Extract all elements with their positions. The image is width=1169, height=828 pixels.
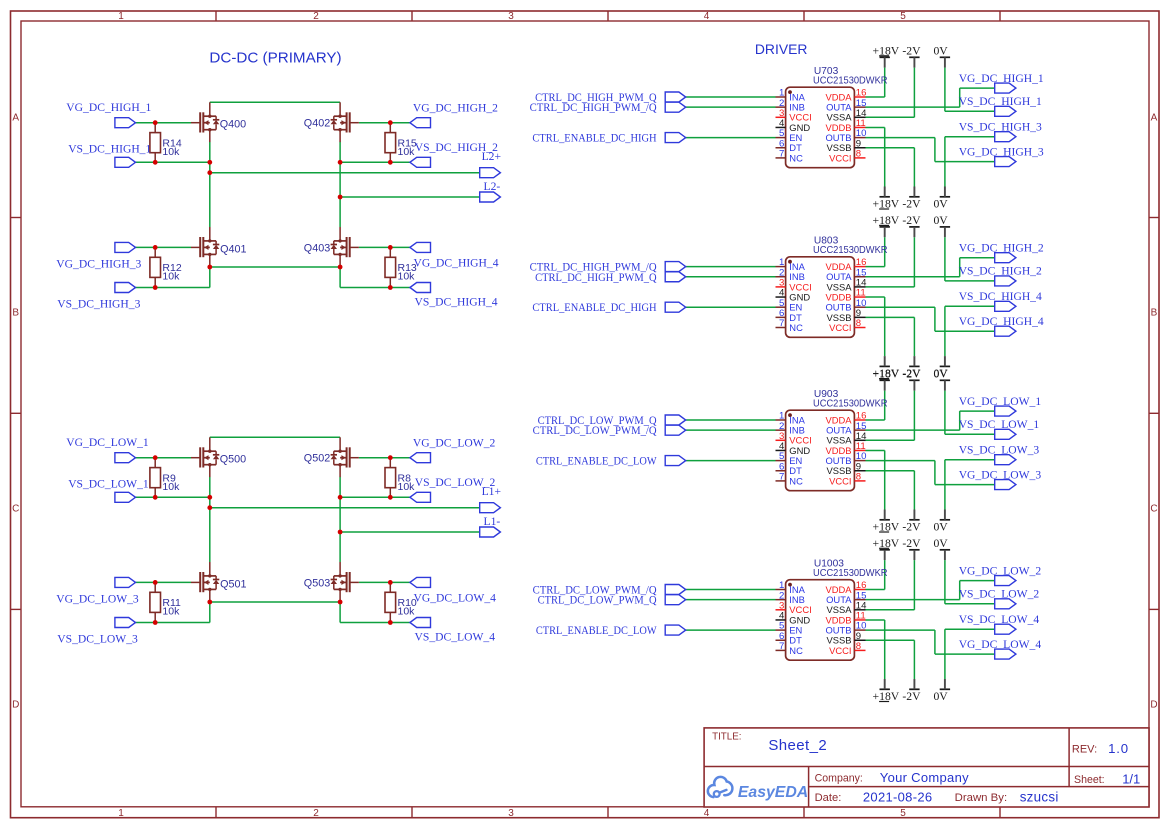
power flag -2V [902, 45, 921, 68]
pin 1 INA [776, 580, 806, 595]
wire [686, 429, 776, 431]
net flag CTRL_DC_LOW_PWM_Q [665, 595, 686, 605]
svg-text:VG_DC_HIGH_4: VG_DC_HIGH_4 [414, 256, 499, 269]
svg-text:2021-08-26: 2021-08-26 [863, 789, 933, 804]
pin 7 NC [776, 318, 804, 333]
net flag VS_DC_HIGH_1 [115, 157, 136, 167]
net flag CTRL_DC_LOW_PWM_Q [665, 415, 686, 425]
svg-text:UCC21530DWKR: UCC21530DWKR [813, 75, 888, 86]
net flag VG_DC_HIGH_4 [410, 242, 431, 252]
resistor R13 [385, 247, 417, 287]
pin 1 INA [776, 257, 806, 272]
wire [866, 96, 885, 98]
svg-text:0V: 0V [933, 45, 948, 58]
junction [338, 265, 343, 270]
junction [388, 580, 393, 585]
net flag VS_DC_LOW_4 [995, 624, 1016, 634]
net flag CTRL_ENABLE_DC_LOW [665, 456, 686, 466]
net flag CTRL_DC_LOW_PWM_/Q [665, 585, 686, 595]
power flag -2V [902, 214, 921, 237]
svg-text:1/1: 1/1 [1122, 771, 1140, 786]
wire [866, 439, 915, 441]
wire [866, 137, 935, 139]
wire [686, 266, 776, 268]
pin 4 GND [776, 288, 811, 303]
svg-text:8: 8 [856, 472, 861, 483]
net flag VG_DC_LOW_1 [995, 406, 1016, 416]
wire [209, 477, 211, 562]
junction [153, 245, 158, 250]
transistor Q503 [331, 562, 359, 602]
wire [866, 419, 885, 421]
junction [207, 170, 212, 175]
net flag VG_DC_LOW_4 [410, 577, 431, 587]
pin 9 VSSB [826, 631, 865, 646]
svg-text:VG_DC_LOW_3: VG_DC_LOW_3 [959, 468, 1042, 481]
svg-text:VS_DC_HIGH_4: VS_DC_HIGH_4 [415, 295, 498, 308]
svg-text:VS_DC_HIGH_2: VS_DC_HIGH_2 [959, 265, 1042, 278]
net flag VS_DC_LOW_1 [115, 492, 136, 502]
wire [210, 172, 480, 174]
op-amp U1003 UCC21530DWKR gate driver IC [786, 559, 888, 661]
transistor Q402 [331, 102, 359, 142]
pin 16 VDDA [825, 88, 866, 103]
wire [359, 246, 410, 248]
wire [866, 429, 960, 431]
wire [135, 622, 210, 624]
pin 5 EN [776, 621, 803, 636]
junction [153, 455, 158, 460]
svg-text:A: A [1151, 113, 1158, 124]
op-amp U803 UCC21530DWKR gate driver IC [786, 236, 888, 338]
svg-text:CTRL_ENABLE_DC_LOW: CTRL_ENABLE_DC_LOW [536, 624, 657, 637]
wire [210, 266, 340, 268]
junction [153, 620, 158, 625]
wire [209, 265, 211, 288]
svg-text:Your Company: Your Company [880, 770, 969, 785]
svg-text:Q503: Q503 [304, 578, 330, 590]
wire [359, 581, 410, 583]
junction [338, 600, 343, 605]
svg-text:VG_DC_LOW_1: VG_DC_LOW_1 [959, 395, 1042, 408]
net flag VS_DC_HIGH_3 [115, 283, 136, 293]
pin 1 INA [776, 411, 806, 426]
wire [209, 142, 211, 227]
pin 10 OUTB [825, 621, 866, 636]
wire [210, 601, 340, 603]
wire [866, 266, 885, 268]
power flag -2V [902, 510, 921, 534]
wire [339, 477, 341, 562]
svg-text:-2V: -2V [902, 537, 921, 550]
wire [686, 96, 776, 98]
wire [340, 496, 410, 498]
resistor R11 [150, 582, 181, 622]
net flag VS_DC_LOW_2 [410, 492, 431, 502]
power flag -2V [902, 679, 921, 703]
wire [210, 101, 340, 103]
wire [866, 629, 935, 631]
svg-text:1: 1 [118, 11, 124, 22]
svg-text:VS_DC_LOW_1: VS_DC_LOW_1 [959, 418, 1040, 431]
power flag 0V [933, 45, 950, 68]
svg-text:UCC21530DWKR: UCC21530DWKR [813, 245, 888, 256]
pin 7 NC [776, 641, 804, 656]
svg-text:VG_DC_LOW_2: VG_DC_LOW_2 [959, 564, 1042, 577]
junction [388, 245, 393, 250]
pin 11 VDDB [825, 118, 865, 133]
pin 11 VDDB [825, 611, 865, 626]
wire [945, 305, 995, 307]
junction [388, 455, 393, 460]
svg-text:EasyEDA: EasyEDA [738, 784, 808, 801]
svg-text:NC: NC [789, 475, 803, 486]
svg-text:CTRL_DC_LOW_PWM_/Q: CTRL_DC_LOW_PWM_/Q [533, 424, 658, 437]
svg-text:VG_DC_HIGH_1: VG_DC_HIGH_1 [66, 101, 151, 114]
net flag VS_DC_HIGH_4 [410, 283, 431, 293]
svg-text:VG_DC_LOW_4: VG_DC_LOW_4 [959, 638, 1042, 651]
svg-text:4: 4 [704, 11, 710, 22]
svg-text:1.0: 1.0 [1108, 741, 1129, 756]
svg-text:10k: 10k [398, 271, 416, 283]
svg-text:3: 3 [508, 808, 514, 819]
svg-text:NC: NC [789, 322, 803, 333]
svg-text:-2V: -2V [902, 368, 921, 381]
net flag CTRL_DC_HIGH_PWM_/Q [665, 262, 686, 272]
power flag 0V [933, 356, 950, 380]
svg-text:10k: 10k [398, 606, 416, 618]
svg-text:VG_DC_HIGH_2: VG_DC_HIGH_2 [413, 102, 498, 115]
wire [866, 116, 915, 118]
net flag VG_DC_LOW_2 [410, 453, 431, 463]
svg-text:VG_DC_HIGH_4: VG_DC_HIGH_4 [959, 315, 1044, 328]
pin 5 EN [776, 451, 803, 466]
net flag VS_DC_LOW_2 [995, 599, 1016, 609]
svg-text:7: 7 [779, 641, 784, 652]
svg-text:VCCI: VCCI [829, 152, 851, 163]
svg-text:VG_DC_LOW_3: VG_DC_LOW_3 [56, 593, 139, 606]
junction [153, 495, 158, 500]
pin 4 GND [776, 118, 811, 133]
wire [686, 106, 776, 108]
svg-text:4: 4 [704, 808, 710, 819]
svg-text:0V: 0V [933, 214, 948, 227]
wire [944, 391, 946, 435]
power flag +18V [873, 510, 900, 534]
transistor Q400 [191, 102, 219, 142]
net flag VS_DC_HIGH_2 [410, 157, 431, 167]
svg-text:7: 7 [779, 472, 784, 483]
pin 15 OUTA [826, 267, 866, 282]
EasyEDA logo [708, 777, 808, 801]
power flag 0V [933, 187, 950, 211]
svg-text:VS_DC_LOW_4: VS_DC_LOW_4 [959, 613, 1040, 626]
svg-text:10k: 10k [162, 271, 180, 283]
net flag VG_DC_LOW_2 [995, 576, 1016, 586]
wire [135, 122, 191, 124]
pin 14 VSSA [826, 600, 867, 615]
svg-text:TITLE:: TITLE: [712, 731, 741, 742]
svg-text:Date:: Date: [815, 792, 842, 804]
transistor Q403 [331, 227, 359, 267]
net flag CTRL_ENABLE_DC_LOW [665, 625, 686, 635]
pin 8 VCCI [829, 318, 865, 333]
wire [866, 460, 935, 462]
junction [207, 265, 212, 270]
wire [686, 137, 776, 139]
pin 3 VCCI [776, 108, 812, 123]
net flag L1- [480, 527, 501, 537]
svg-text:10k: 10k [162, 606, 180, 618]
wire [945, 136, 995, 138]
transistor Q500 [191, 437, 219, 477]
pin 11 VDDB [825, 441, 865, 456]
wire [686, 460, 776, 462]
svg-text:10k: 10k [162, 146, 180, 158]
junction [153, 285, 158, 290]
pin 6 DT [776, 461, 803, 476]
power flag +18V [873, 187, 900, 211]
svg-text:VS_DC_HIGH_1: VS_DC_HIGH_1 [959, 95, 1042, 108]
wire [135, 496, 210, 498]
svg-text:Q403: Q403 [304, 243, 330, 255]
junction [153, 580, 158, 585]
power flag +18V [873, 214, 900, 237]
svg-text:VS_DC_LOW_3: VS_DC_LOW_3 [57, 632, 138, 645]
wire [866, 470, 915, 472]
power flag -2V [902, 537, 921, 560]
title block [704, 728, 1149, 807]
resistor R10 [385, 582, 417, 622]
svg-text:VCCI: VCCI [829, 475, 851, 486]
svg-text:Drawn By:: Drawn By: [955, 792, 1008, 804]
wire [945, 628, 995, 630]
net flag VG_DC_HIGH_2 [410, 118, 431, 128]
wire [135, 287, 210, 289]
svg-text:UCC21530DWKR: UCC21530DWKR [813, 568, 888, 579]
svg-text:-2V: -2V [902, 690, 921, 703]
pin 6 DT [776, 308, 803, 323]
net flag VG_DC_HIGH_1 [115, 118, 136, 128]
svg-text:-2V: -2V [902, 198, 921, 211]
net flag VG_DC_HIGH_3 [115, 242, 136, 252]
pin 10 OUTB [825, 298, 866, 313]
wire [866, 106, 960, 108]
wire [340, 287, 410, 289]
wire [866, 619, 885, 621]
wire [866, 589, 885, 591]
junction [338, 195, 343, 200]
net flag CTRL_DC_LOW_PWM_/Q [665, 425, 686, 435]
svg-text:0V: 0V [933, 537, 948, 550]
wire [866, 449, 885, 451]
svg-text:D: D [12, 700, 19, 711]
junction [388, 120, 393, 125]
wire [866, 609, 915, 611]
svg-text:CTRL_ENABLE_DC_LOW: CTRL_ENABLE_DC_LOW [536, 455, 657, 468]
svg-text:3: 3 [508, 11, 514, 22]
junction [153, 160, 158, 165]
net flag VG_DC_HIGH_1 [995, 83, 1016, 93]
junction [388, 160, 393, 165]
pin 16 VDDA [825, 257, 866, 272]
net flag L1+ [480, 503, 501, 513]
svg-text:DC-DC (PRIMARY): DC-DC (PRIMARY) [209, 49, 341, 66]
junction [207, 495, 212, 500]
net flag VS_DC_LOW_1 [995, 429, 1016, 439]
wire [340, 531, 480, 533]
svg-text:CTRL_DC_HIGH_PWM_Q: CTRL_DC_HIGH_PWM_Q [535, 271, 657, 284]
pin 9 VSSB [826, 461, 865, 476]
pin 2 INB [776, 267, 805, 282]
op-amp U703 UCC21530DWKR gate driver IC [786, 66, 888, 168]
pin 3 VCCI [776, 431, 812, 446]
pin 7 NC [776, 472, 804, 487]
pin 6 DT [776, 138, 803, 153]
pin 15 OUTA [826, 98, 866, 113]
net flag CTRL_DC_HIGH_PWM_Q [665, 92, 686, 102]
power flag -2V [902, 368, 921, 391]
pin 9 VSSB [826, 138, 865, 153]
wire [339, 142, 341, 227]
wire [135, 246, 191, 248]
net flag VS_DC_LOW_3 [115, 618, 136, 628]
svg-text:5: 5 [900, 11, 906, 22]
pin 14 VSSA [826, 278, 867, 293]
wire [210, 507, 480, 509]
svg-text:-2V: -2V [902, 521, 921, 534]
wire [686, 419, 776, 421]
wire [944, 560, 946, 604]
wire [866, 126, 885, 128]
svg-text:DRIVER: DRIVER [755, 41, 807, 57]
net flag VG_DC_HIGH_2 [995, 253, 1016, 263]
junction [388, 620, 393, 625]
wire [866, 286, 915, 288]
svg-text:0V: 0V [933, 521, 948, 534]
net flag CTRL_DC_HIGH_PWM_Q [665, 272, 686, 282]
svg-text:VS_DC_HIGH_4: VS_DC_HIGH_4 [959, 290, 1042, 303]
svg-text:Sheet:: Sheet: [1074, 774, 1105, 786]
wire [686, 306, 776, 308]
pin 2 INB [776, 421, 805, 436]
resistor R8 [385, 458, 415, 498]
svg-text:VS_DC_HIGH_3: VS_DC_HIGH_3 [57, 297, 140, 310]
junction [207, 600, 212, 605]
wire [866, 639, 915, 641]
svg-text:VS_DC_HIGH_3: VS_DC_HIGH_3 [959, 120, 1042, 133]
net flag L2- [480, 192, 501, 202]
power flag +18V [873, 368, 900, 391]
svg-text:REV:: REV: [1072, 743, 1097, 755]
net flag VS_DC_HIGH_3 [995, 132, 1016, 142]
wire [135, 457, 191, 459]
wire [340, 196, 480, 198]
resistor R15 [385, 123, 417, 163]
pin 10 OUTB [825, 128, 866, 143]
wire [866, 599, 960, 601]
svg-text:Q401: Q401 [220, 243, 246, 255]
resistor R14 [150, 123, 182, 163]
svg-text:Q500: Q500 [220, 453, 246, 465]
pin 5 EN [776, 298, 803, 313]
net flag CTRL_ENABLE_DC_HIGH [665, 133, 686, 143]
svg-text:L1-: L1- [484, 515, 501, 528]
junction [388, 285, 393, 290]
pin 5 EN [776, 128, 803, 143]
power flag +18V [873, 679, 900, 703]
svg-text:2: 2 [313, 11, 319, 22]
svg-text:VG_DC_HIGH_1: VG_DC_HIGH_1 [959, 72, 1044, 85]
svg-text:VG_DC_HIGH_3: VG_DC_HIGH_3 [56, 258, 141, 271]
svg-text:0V: 0V [933, 690, 948, 703]
pin 8 VCCI [829, 472, 865, 487]
svg-text:VG_DC_LOW_2: VG_DC_LOW_2 [413, 437, 496, 450]
pin 1 INA [776, 88, 806, 103]
wire [944, 68, 946, 112]
wire [944, 237, 946, 281]
svg-text:Q502: Q502 [304, 453, 330, 465]
power flag 0V [933, 368, 950, 391]
svg-text:CTRL_DC_LOW_PWM_Q: CTRL_DC_LOW_PWM_Q [538, 594, 658, 607]
wire [686, 276, 776, 278]
power flag 0V [933, 537, 950, 560]
svg-text:VCCI: VCCI [829, 645, 851, 656]
svg-text:-2V: -2V [902, 45, 921, 58]
power flag 0V [933, 510, 950, 534]
svg-text:Sheet_2: Sheet_2 [768, 737, 827, 754]
wire [340, 622, 410, 624]
svg-text:VG_DC_HIGH_3: VG_DC_HIGH_3 [959, 145, 1044, 158]
junction [338, 160, 343, 165]
svg-text:VS_DC_LOW_3: VS_DC_LOW_3 [959, 443, 1040, 456]
net flag VG_DC_LOW_3 [115, 577, 136, 587]
pin 7 NC [776, 149, 804, 164]
pin 14 VSSA [826, 431, 867, 446]
power flag +18V [873, 356, 900, 380]
wire [209, 600, 211, 623]
wire [945, 459, 995, 461]
svg-text:10k: 10k [398, 146, 416, 158]
net flag VG_DC_LOW_1 [115, 453, 136, 463]
svg-text:CTRL_ENABLE_DC_HIGH: CTRL_ENABLE_DC_HIGH [532, 132, 657, 145]
net flag VG_DC_HIGH_3 [995, 157, 1016, 167]
pin 3 VCCI [776, 278, 812, 293]
svg-text:szucsi: szucsi [1020, 789, 1059, 804]
svg-text:7: 7 [779, 318, 784, 329]
svg-text:10k: 10k [398, 481, 416, 493]
pin 11 VDDB [825, 288, 865, 303]
pin 3 VCCI [776, 600, 812, 615]
pin 8 VCCI [829, 641, 865, 656]
net flag VS_DC_HIGH_1 [995, 106, 1016, 116]
svg-text:L1+: L1+ [482, 485, 501, 498]
pin 4 GND [776, 611, 811, 626]
pin 15 OUTA [826, 590, 866, 605]
svg-text:L2-: L2- [484, 180, 501, 193]
net flag VS_DC_LOW_4 [410, 618, 431, 628]
wire [359, 122, 410, 124]
wire [866, 296, 885, 298]
svg-text:VS_DC_LOW_4: VS_DC_LOW_4 [415, 630, 496, 643]
wire [866, 147, 915, 149]
svg-text:A: A [12, 113, 19, 124]
wire [866, 316, 915, 318]
pin 15 OUTA [826, 421, 866, 436]
svg-text:NC: NC [789, 152, 803, 163]
svg-text:5: 5 [900, 808, 906, 819]
svg-text:VG_DC_LOW_4: VG_DC_LOW_4 [414, 591, 497, 604]
